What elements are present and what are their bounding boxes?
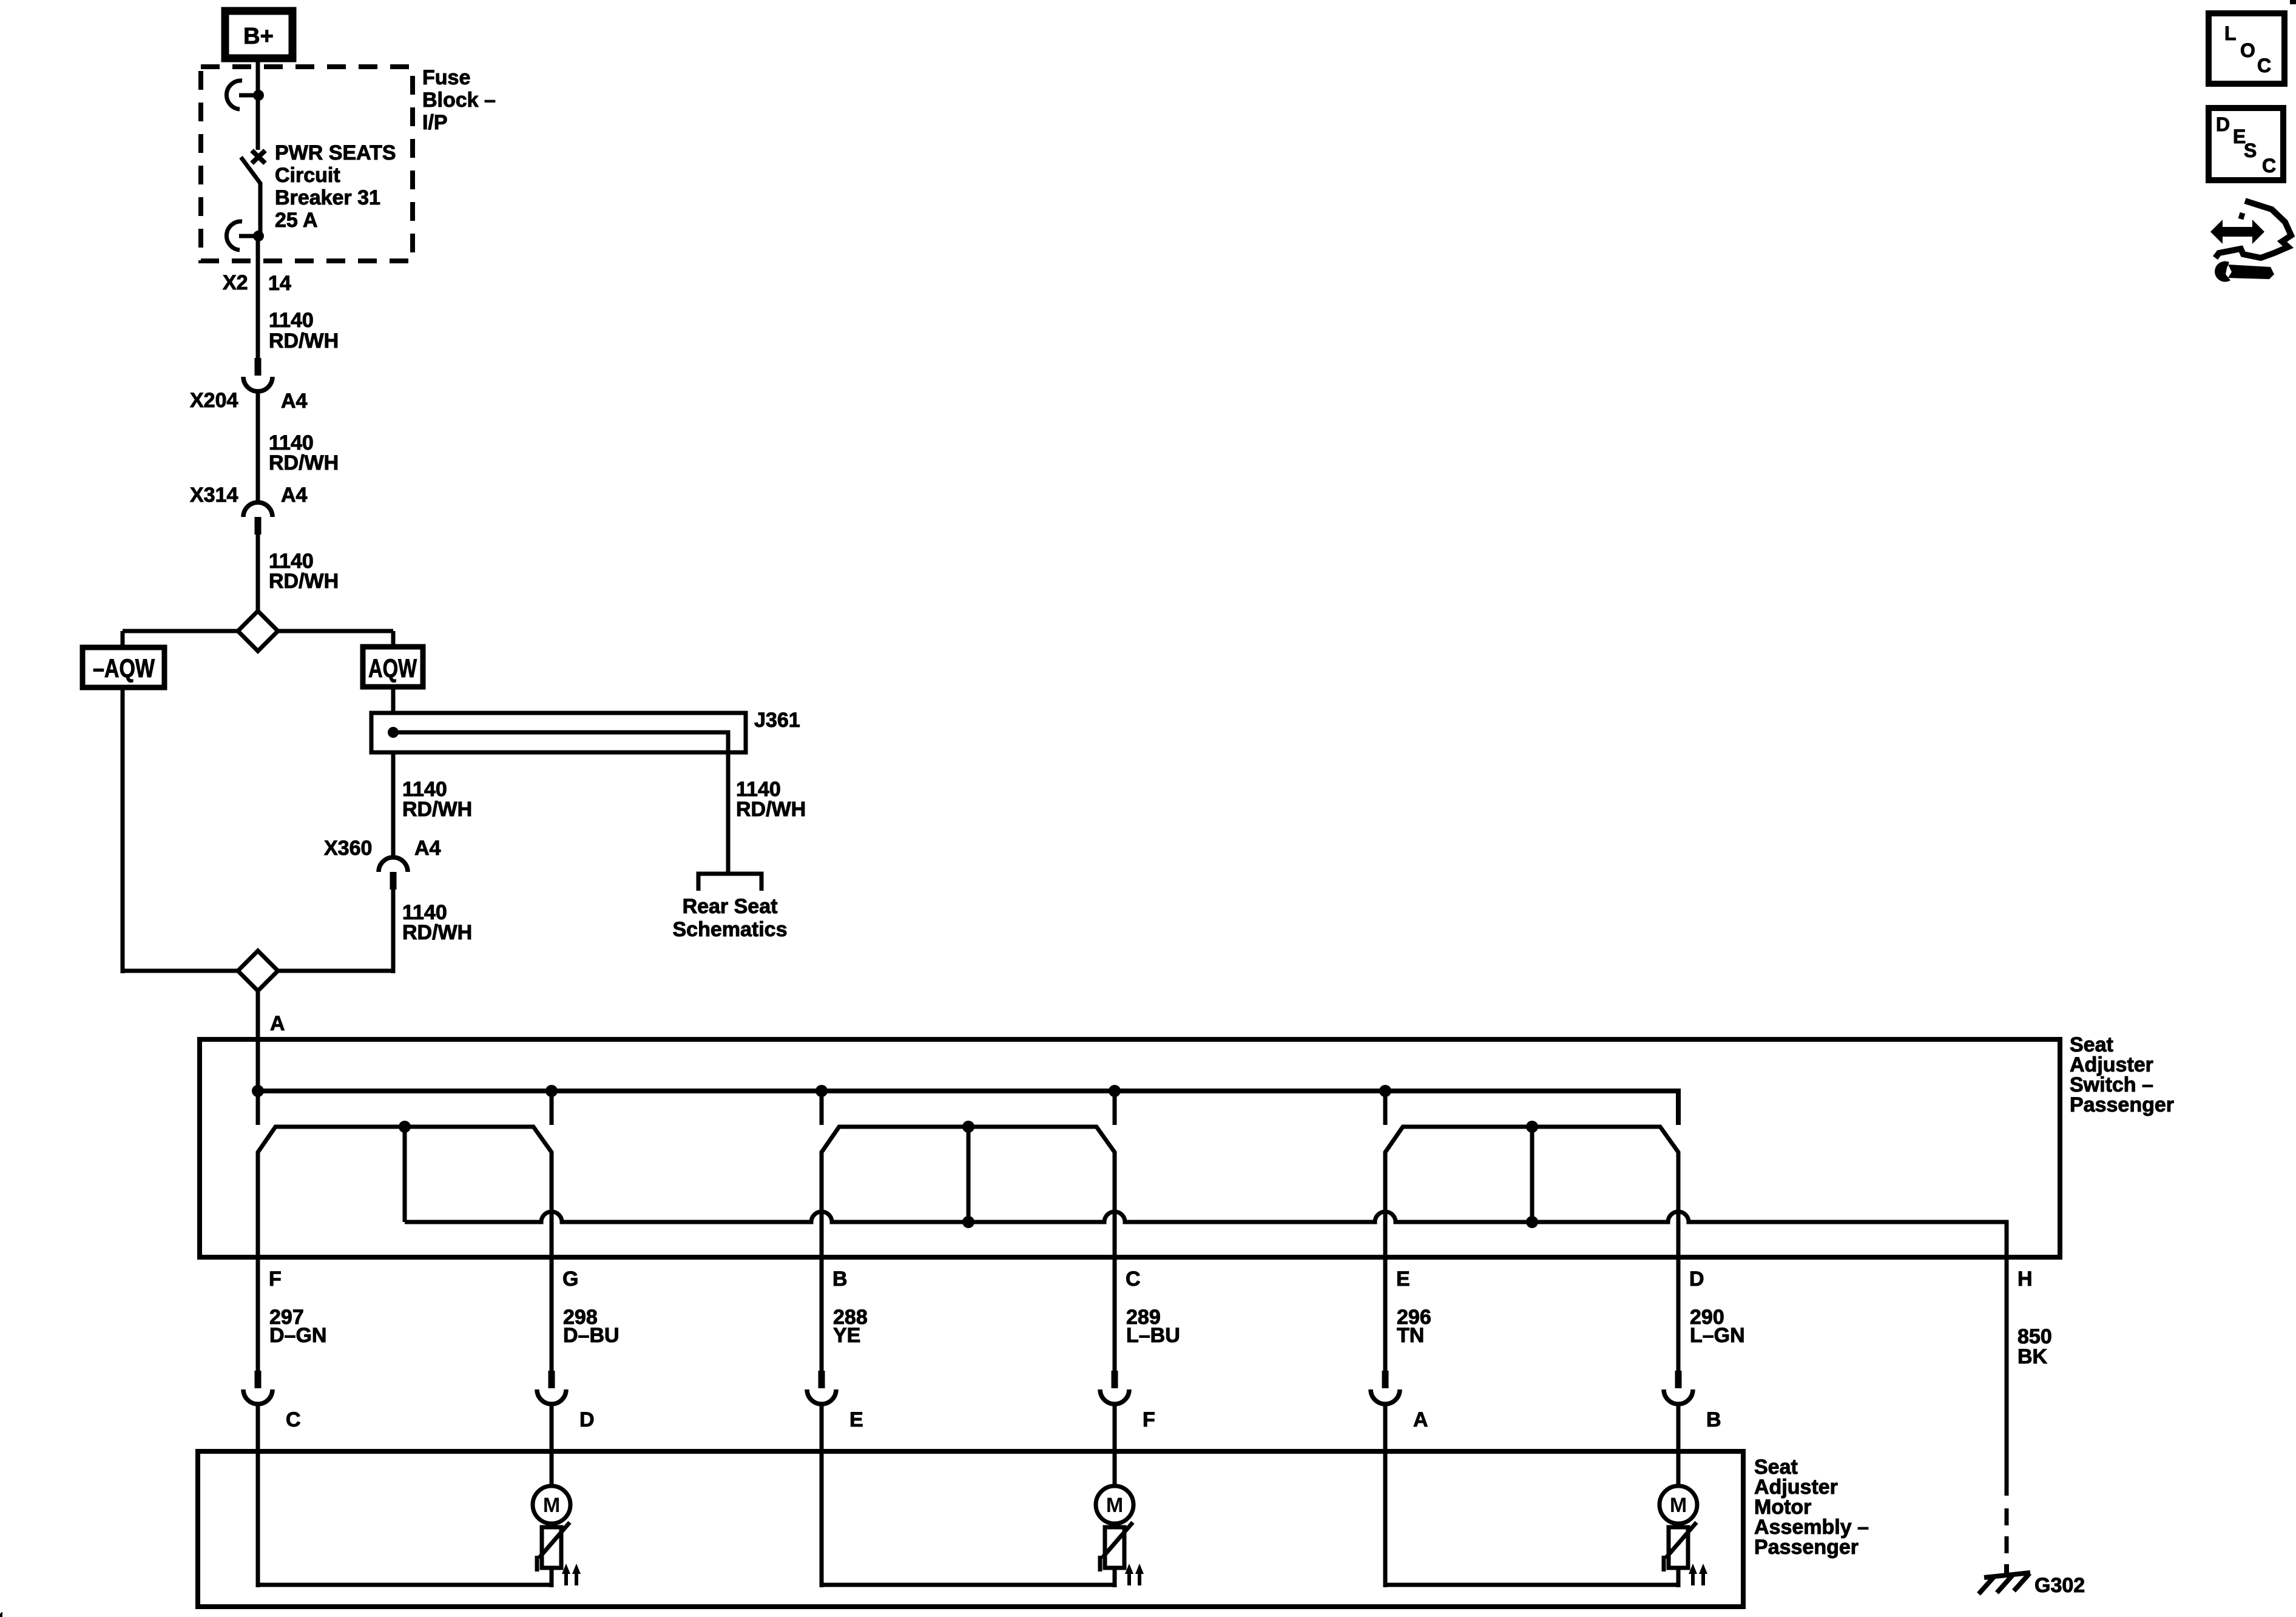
legend icon DESC xyxy=(2209,108,2283,180)
legend icon LOC xyxy=(2209,13,2284,84)
PTC thermal protector M3 xyxy=(1664,1522,1697,1587)
svg-text:G: G xyxy=(562,1268,578,1291)
off-page connector to Rear Seat Schematics xyxy=(698,874,761,891)
svg-text:A: A xyxy=(1413,1408,1428,1431)
splice pack J361 outline xyxy=(371,713,746,752)
motor M2 return wire xyxy=(820,1404,824,1587)
svg-text:C: C xyxy=(2262,155,2276,177)
motor M1 feed wire xyxy=(550,1404,554,1488)
power symbol B+ xyxy=(225,11,292,58)
svg-text:F: F xyxy=(1143,1408,1155,1431)
splice diamond (top) xyxy=(238,611,278,651)
wire to -AQW xyxy=(121,631,125,649)
motor M1 bottom wire xyxy=(258,1583,552,1587)
svg-text:O: O xyxy=(2240,39,2255,61)
svg-text:X204: X204 xyxy=(190,389,238,412)
stationary contact stub x=1837 xyxy=(1113,1091,1117,1125)
svg-text:X314: X314 xyxy=(190,484,238,507)
motor M3 feed wire xyxy=(1676,1404,1681,1488)
svg-text:Rear Seat: Rear Seat xyxy=(683,895,778,918)
net flag AQW xyxy=(363,647,423,687)
net flag -AQW xyxy=(83,647,164,687)
wire breaker to connector X2-14 xyxy=(256,236,260,358)
svg-text:D: D xyxy=(579,1408,595,1431)
fuse block I/P dashed outline xyxy=(201,67,413,261)
PTC thermal protector M2 xyxy=(1100,1522,1133,1587)
wire splice horizontal bottom xyxy=(123,969,393,973)
wire splice horizontal top xyxy=(123,629,393,633)
legend icon adjust (hand with arrow and wrench) xyxy=(2210,201,2291,282)
Seat Adjuster Switch - Passenger box xyxy=(200,1039,2060,1257)
inline connector (motor pin A) xyxy=(1371,1371,1400,1404)
svg-text:M: M xyxy=(543,1494,560,1517)
bus junction dot x=425 xyxy=(252,1085,264,1097)
motor M3 return wire xyxy=(1383,1404,1388,1587)
wire 850 BK dashed segment xyxy=(2005,1508,2009,1553)
svg-text:E: E xyxy=(1396,1268,1410,1291)
svg-text:850BK: 850BK xyxy=(2017,1325,2052,1368)
stationary contact stub x=425 xyxy=(256,1091,260,1125)
direction arrows M2 xyxy=(1127,1573,1131,1585)
svg-text:14: 14 xyxy=(268,272,291,295)
svg-text:D: D xyxy=(2216,113,2230,135)
svg-text:B: B xyxy=(832,1268,848,1291)
rocker SW2 (B/C) center tap dot xyxy=(962,1121,974,1133)
inline connector (motor pin D) xyxy=(537,1371,566,1404)
svg-text:F: F xyxy=(269,1268,282,1291)
page corner mark bottom-left xyxy=(0,1612,2,1617)
svg-text:A4: A4 xyxy=(414,837,441,860)
wire X314 to splice diamond xyxy=(256,535,260,613)
bus junction dot x=1354 xyxy=(815,1085,828,1097)
svg-text:AQW: AQW xyxy=(368,654,417,683)
svg-text:C: C xyxy=(286,1408,301,1431)
svg-text:B+: B+ xyxy=(243,24,274,49)
switch pin E wire xyxy=(1383,1153,1388,1372)
wire B+ to circuit breaker xyxy=(256,58,260,93)
connector X314 pin A4 xyxy=(243,502,272,535)
svg-text:M: M xyxy=(1670,1494,1687,1517)
page corner mark top-right xyxy=(2290,0,2296,4)
svg-text:J361: J361 xyxy=(754,709,800,732)
rocker SW3 (E/D) center tap wire xyxy=(1530,1127,1535,1222)
direction arrows M3 xyxy=(1691,1573,1695,1585)
connector X360 pin A4 xyxy=(379,857,408,890)
switch internal feed bus xyxy=(258,1091,1678,1125)
inline connector (motor pin C) xyxy=(243,1371,272,1404)
wire J361 to rear seat schematics xyxy=(726,752,731,874)
switch pin C wire xyxy=(1113,1153,1117,1372)
wire AQW to splice pack J361 xyxy=(391,686,396,715)
svg-text:A4: A4 xyxy=(281,484,308,507)
svg-text:X360: X360 xyxy=(324,837,372,860)
svg-text:B: B xyxy=(1706,1408,1721,1431)
svg-text:A: A xyxy=(270,1012,285,1035)
inline connector (motor pin B) xyxy=(1664,1371,1693,1404)
junction dot in J361 xyxy=(388,727,399,738)
svg-text:C: C xyxy=(1126,1268,1141,1291)
motor M3 bottom wire xyxy=(1385,1583,1678,1587)
wire X360 down to splice xyxy=(391,890,396,973)
inline connector (motor pin F) xyxy=(1100,1371,1129,1404)
inline connector (motor pin E) xyxy=(807,1371,836,1404)
switch common return line to pin H xyxy=(405,1212,2007,1260)
switch pin F wire xyxy=(256,1153,260,1372)
wire J361 to X360 xyxy=(391,752,396,857)
svg-text:C: C xyxy=(2257,55,2271,76)
ground G302 xyxy=(1979,1564,2030,1594)
rocker SW1 (F/G) center tap dot xyxy=(399,1121,411,1133)
connector X204 pin A4 xyxy=(243,358,272,391)
motor M2 xyxy=(1096,1486,1133,1524)
svg-text:Schematics: Schematics xyxy=(673,918,788,941)
stationary contact stub x=2283 xyxy=(1383,1091,1388,1125)
motor M2 feed wire xyxy=(1113,1404,1117,1488)
switch rocker SW1 (F/G) xyxy=(258,1127,552,1159)
switch pin D wire xyxy=(1676,1153,1681,1372)
common line junction dot at SW3 tap xyxy=(1526,1216,1538,1228)
svg-text:L: L xyxy=(2224,22,2237,44)
motor M1 return wire xyxy=(256,1404,260,1587)
wire X204 to X314 xyxy=(256,391,260,502)
switch pin B wire xyxy=(820,1153,824,1372)
PTC thermal protector M1 xyxy=(537,1522,570,1587)
rocker SW1 (F/G) center tap wire xyxy=(403,1127,407,1222)
svg-text:G302: G302 xyxy=(2034,1574,2085,1597)
splice diamond (bottom) xyxy=(238,951,278,991)
switch rocker SW3 (E/D) xyxy=(1385,1127,1678,1159)
wire 850 BK to ground xyxy=(2005,1260,2009,1496)
wire splice to switch pin A xyxy=(256,991,260,1093)
motor M1 xyxy=(533,1486,570,1524)
motor M3 xyxy=(1660,1486,1697,1524)
svg-text:A4: A4 xyxy=(281,390,308,413)
stationary contact stub x=909 xyxy=(550,1091,554,1125)
wire to AQW xyxy=(391,631,396,649)
bus junction dot x=2283 xyxy=(1379,1085,1391,1097)
bus junction dot x=1837 xyxy=(1109,1085,1121,1097)
svg-text:M: M xyxy=(1106,1494,1123,1517)
circuit breaker 31 PWR SEATS 25A xyxy=(226,81,265,250)
svg-text:S: S xyxy=(2244,140,2257,161)
Seat Adjuster Motor Assembly - Passenger box xyxy=(198,1451,1743,1607)
svg-text:D: D xyxy=(1689,1268,1704,1291)
wire -AQW leg down xyxy=(121,686,125,973)
svg-text:X2: X2 xyxy=(223,271,248,294)
stationary contact stub x=1354 xyxy=(820,1091,824,1125)
switch pin G wire xyxy=(550,1153,554,1372)
bus junction dot x=909 xyxy=(545,1085,558,1097)
svg-text:–AQW: –AQW xyxy=(93,654,155,683)
rocker SW2 (B/C) center tap wire xyxy=(967,1127,971,1222)
motor M2 bottom wire xyxy=(822,1583,1115,1587)
svg-text:E: E xyxy=(849,1408,863,1431)
svg-text:H: H xyxy=(2017,1268,2033,1291)
common line junction dot at SW2 tap xyxy=(962,1216,974,1228)
rocker SW3 (E/D) center tap dot xyxy=(1526,1121,1538,1133)
direction arrows M1 xyxy=(564,1573,568,1585)
switch rocker SW2 (B/C) xyxy=(822,1127,1115,1159)
wire J361 internal bus xyxy=(393,732,728,752)
